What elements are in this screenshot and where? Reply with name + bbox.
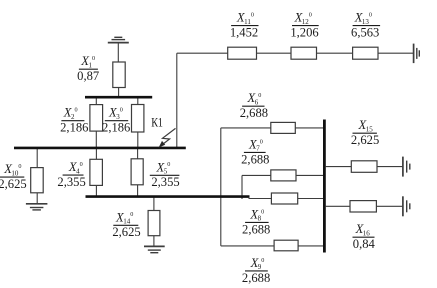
svg-text:1,206: 1,206 bbox=[290, 26, 318, 40]
svg-text:2,186: 2,186 bbox=[60, 121, 88, 135]
svg-text:2,355: 2,355 bbox=[57, 175, 85, 189]
svg-text:2,186: 2,186 bbox=[102, 121, 130, 135]
svg-text:2,688: 2,688 bbox=[240, 106, 268, 120]
svg-text:2,688: 2,688 bbox=[241, 152, 269, 166]
svg-text:2,625: 2,625 bbox=[351, 133, 379, 147]
svg-text:0,87: 0,87 bbox=[77, 69, 99, 83]
svg-text:0,84: 0,84 bbox=[353, 237, 376, 251]
svg-text:1,452: 1,452 bbox=[230, 26, 258, 40]
svg-text:2,688: 2,688 bbox=[242, 222, 270, 236]
svg-text:6,563: 6,563 bbox=[351, 26, 379, 40]
svg-text:2,625: 2,625 bbox=[0, 177, 27, 191]
svg-text:2,688: 2,688 bbox=[242, 271, 270, 285]
svg-text:2,625: 2,625 bbox=[112, 225, 140, 239]
svg-text:2,355: 2,355 bbox=[151, 175, 179, 189]
svg-text:К1: К1 bbox=[151, 116, 163, 130]
